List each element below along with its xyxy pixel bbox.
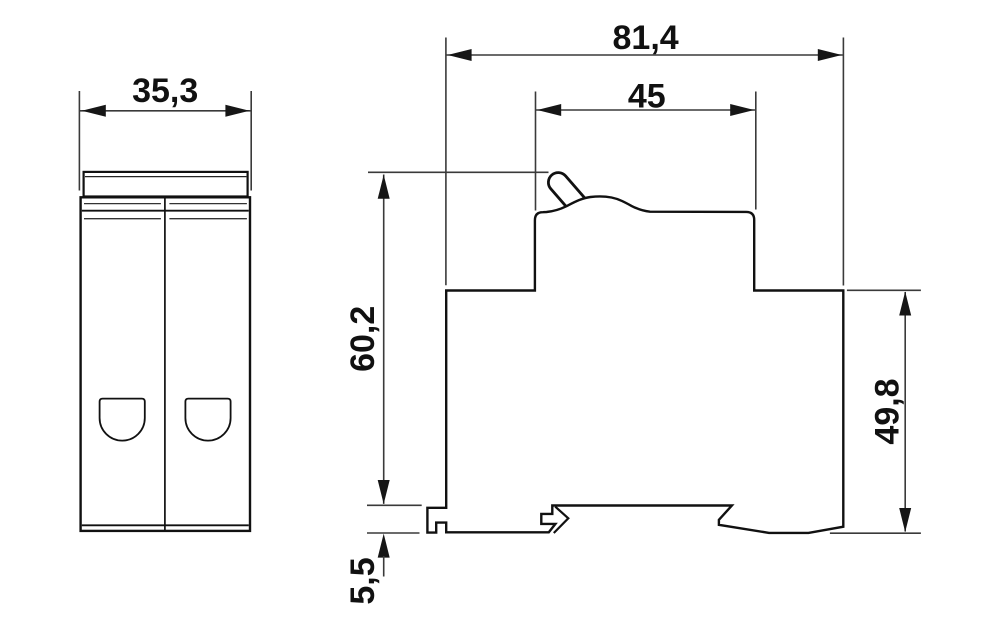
terminal opening right (D shape) [185,399,230,441]
center divider [164,199,166,531]
svg-text:60,2: 60,2 [344,306,382,372]
thin slot line upper left [84,203,161,205]
arrowhead down 60,2 [378,480,390,504]
dimension line 45 [536,109,756,111]
arrowhead up 5,5 [378,534,390,558]
DIN rail latch arrow [554,507,569,533]
arrowhead up 49,8 [899,292,911,316]
thin slot line upper right [169,203,247,205]
arrowhead down 49,8 [899,508,911,532]
dimension line 60,2 [383,175,385,504]
arrowhead right 81,4 [818,49,842,61]
dimension line 49,8 [904,292,906,532]
extension line left of 81,4 [445,38,447,286]
extension line top of 49,8 [847,289,921,291]
arrowhead left 45 [537,104,561,116]
svg-text:5,5: 5,5 [344,557,382,604]
extension line top of 60,2 (toggle top tangent) [368,171,549,173]
svg-text:45: 45 [628,77,666,115]
thin slot line lower right [169,218,247,220]
full-width step line [82,210,249,212]
bottom band line [82,524,249,526]
extension line right of 81,4 [842,38,844,286]
arrowhead left 35,3 [82,105,106,117]
extension line 1 of 5,5 [367,504,422,506]
tail line 5,5 [383,556,385,577]
dimension line 35,3 [80,110,251,112]
arrowhead left 81,4 [448,49,472,61]
extension line right of 35,3 [250,91,252,191]
extension line bottom of 49,8 [830,532,921,534]
extension line right of 45 [755,92,757,210]
arrowhead up 60,2 [378,175,390,199]
svg-text:35,3: 35,3 [132,72,198,110]
thin slot line lower left [84,218,161,220]
cap inner line [85,176,246,178]
extension line left of 35,3 [78,91,80,191]
svg-text:49,8: 49,8 [868,378,906,444]
top cap of front view [84,172,248,197]
terminal opening left (D shape) [100,399,145,441]
front body outline [81,197,250,531]
side body outline [427,196,843,532]
svg-text:81,4: 81,4 [613,19,679,57]
dimension line 81,4 [446,54,843,56]
toggle lever [544,169,597,226]
arrowhead right 45 [730,104,754,116]
extension line 2 of 5,5 [367,532,420,534]
arrowhead right 35,3 [225,105,249,117]
extension line left of 45 [535,92,537,211]
